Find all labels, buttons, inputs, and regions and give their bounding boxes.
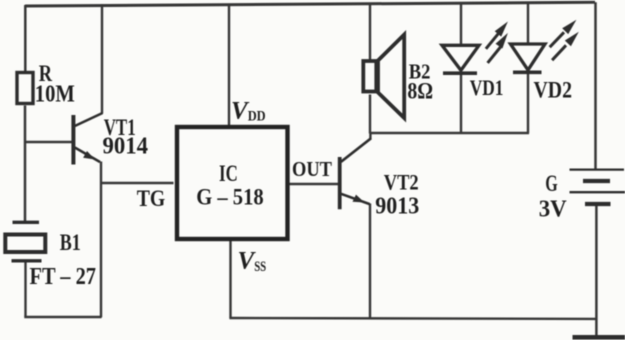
LED VD1 triangle xyxy=(442,45,479,70)
svg-text:VT2: VT2 xyxy=(384,170,419,195)
wire OUT xyxy=(289,183,339,185)
svg-text:VDD: VDD xyxy=(231,97,266,124)
LED VD2 light arrow 2 xyxy=(552,32,579,60)
wire left rail upper xyxy=(24,5,27,71)
svg-text:IC: IC xyxy=(219,161,238,187)
wire speaker riser xyxy=(369,3,371,61)
svg-text:VD1: VD1 xyxy=(470,75,504,100)
transistor VT1 collector stroke xyxy=(75,113,103,126)
speaker B2 horn xyxy=(378,35,404,119)
wire B1 bottom drop xyxy=(24,261,26,317)
LED VD2 triangle xyxy=(511,44,546,70)
svg-text:OUT: OUT xyxy=(292,157,333,181)
LED VD1 cathode bar xyxy=(443,71,477,75)
LED VD1 light arrow 2 xyxy=(488,33,508,63)
wire left rail lower xyxy=(24,106,27,222)
wire VT1 collector riser xyxy=(101,4,103,114)
wire VSS drop xyxy=(229,240,231,318)
transistor VT1 emitter arrowhead xyxy=(83,151,95,160)
svg-text:G – 518: G – 518 xyxy=(196,185,264,210)
svg-text:TG: TG xyxy=(137,186,166,212)
svg-text:VSS: VSS xyxy=(238,247,267,275)
wire TG xyxy=(101,182,174,184)
ground xyxy=(573,335,625,340)
battery G plate long 2 xyxy=(570,191,625,193)
resistor R1 body xyxy=(17,73,33,104)
svg-text:8Ω: 8Ω xyxy=(407,78,433,103)
wire top rail xyxy=(25,2,595,6)
svg-text:B1: B1 xyxy=(60,230,81,255)
LED VD2 cathode bar xyxy=(513,71,542,75)
transistor VT2 base bar xyxy=(338,157,342,209)
op IC U1 box G-518 xyxy=(177,127,288,239)
wire VT1 emitter column xyxy=(100,162,102,318)
piezo B1 top plate xyxy=(13,221,40,224)
battery G plate long 1 xyxy=(570,168,625,170)
transistor VT2 emitter arrowhead xyxy=(353,195,365,203)
LED VD1 light arrow 1 xyxy=(486,22,508,49)
battery G plate short 1 xyxy=(583,179,610,183)
speaker B2 driver box xyxy=(363,61,376,92)
svg-text:FT – 27: FT – 27 xyxy=(30,264,97,290)
wire VD2 riser xyxy=(527,3,529,45)
transistor VT1 base bar xyxy=(71,115,75,165)
transistor VT2 emitter stroke xyxy=(341,194,370,204)
wire VT1 base xyxy=(25,141,72,143)
transistor VT1 emitter stroke xyxy=(75,148,100,163)
piezo B1 bottom plate xyxy=(12,259,42,262)
transistor VT2 collector stroke xyxy=(341,138,371,162)
LED VD2 light arrow 1 xyxy=(550,20,577,48)
svg-text:9014: 9014 xyxy=(103,133,149,160)
wire VDD riser xyxy=(228,4,230,125)
wire bottom left segment xyxy=(24,316,101,318)
svg-text:10M: 10M xyxy=(35,81,75,108)
battery G plate short 2 xyxy=(585,202,611,206)
svg-text:VD2: VD2 xyxy=(534,77,573,102)
wire battery bottom xyxy=(595,205,598,336)
wire VT2 emitter column xyxy=(369,204,371,319)
wire bottom bus xyxy=(229,317,597,320)
svg-text:3V: 3V xyxy=(539,197,568,223)
svg-text:9013: 9013 xyxy=(375,192,419,219)
wire VT2 collector riser xyxy=(369,133,371,140)
wire speaker drop xyxy=(369,95,371,134)
wire VD1 riser xyxy=(460,3,462,46)
wire VD1 drop xyxy=(460,73,462,134)
svg-text:G: G xyxy=(545,171,558,196)
wire right rail xyxy=(594,2,597,169)
wire VD2 drop xyxy=(527,72,529,134)
wire LED bus xyxy=(370,132,530,134)
piezo B1 body xyxy=(5,235,45,253)
